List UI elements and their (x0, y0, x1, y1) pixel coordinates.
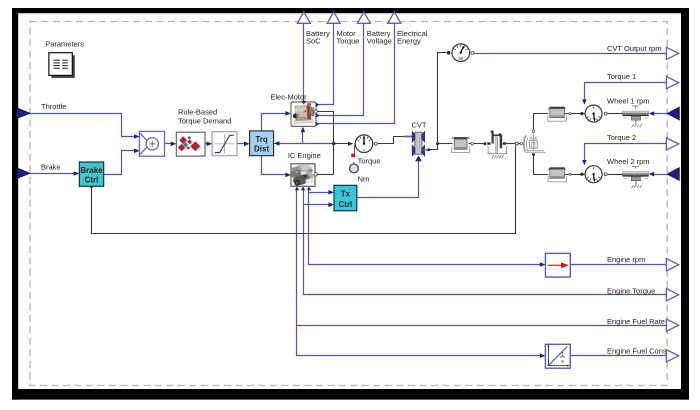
wire rate transition to Engine rpm port (571, 264, 667, 266)
svg-text:Energy: Energy (397, 36, 421, 45)
output port Electrical Energy (388, 12, 401, 23)
connector circle IC Engine shaft (314, 173, 317, 176)
wire wheel 1 tap to Torque 1 port (585, 83, 667, 104)
output port Engine Fuel Cons (666, 350, 678, 362)
svg-text:SoC: SoC (306, 36, 321, 45)
block rate transition (545, 253, 570, 277)
wire engine rpm signal (309, 189, 543, 265)
connector circle torque gauge right (374, 142, 377, 145)
output port Battery Voltage (357, 12, 370, 23)
svg-text:Engine Torque: Engine Torque (607, 287, 655, 296)
axle body bar 2 (623, 166, 649, 188)
connector circle gear right (471, 142, 474, 145)
wire Tx Ctrl output to CVT bottom (357, 159, 419, 198)
wire gauge 1 to axle 1 (607, 113, 623, 115)
wire Wheel 2 rpm port to axle (654, 174, 668, 176)
port mark Elec-Motor right 2 (316, 113, 320, 117)
output port CVT Output rpm (666, 47, 678, 59)
block Rule-Based Torque Demand chart (176, 132, 205, 156)
wire engine torque signal (304, 189, 667, 295)
junction dot tire1 row (580, 112, 583, 115)
tire block 2 (547, 168, 566, 182)
output port Torque 1 (666, 77, 678, 89)
arrowhead into CVT bottom from Tx Ctrl (415, 155, 422, 161)
arrowhead into rate transition (540, 262, 546, 267)
wire torque gauge to CVT input (378, 137, 405, 144)
output port Engine Fuel Rate (666, 319, 678, 331)
junction dot riser/gear row (436, 142, 439, 145)
input port Wheel 1 rpm (667, 107, 679, 120)
arrowhead into Trq Dist left (244, 142, 250, 147)
icon Sum plus sign (149, 141, 155, 147)
wire tire 1 to gauge 1 (565, 113, 585, 115)
svg-text:Dist: Dist (254, 144, 269, 153)
svg-text:Engine rpm: Engine rpm (607, 255, 645, 264)
block gear (inertia) (451, 137, 470, 153)
connector circle differential top (532, 130, 535, 133)
wire Elec-Motor to Battery Voltage port (319, 23, 364, 116)
svg-text:Torque: Torque (337, 36, 360, 45)
arrowhead into axle 1 from port (649, 111, 654, 116)
block Saturation (212, 132, 237, 156)
connector circle gauge2 right (604, 173, 607, 176)
wire engine shaft (318, 174, 334, 176)
port mark Elec-Motor right 1 (316, 103, 320, 107)
junction dot shaft/gauge (332, 142, 335, 145)
wire riser branch to gear (438, 143, 453, 145)
icon integrator (547, 346, 567, 366)
icon electric motor (292, 103, 315, 124)
arrowhead into Chart (171, 142, 177, 147)
border frame top (12, 8, 689, 13)
svg-text:Torque 1: Torque 1 (607, 72, 636, 81)
svg-text:Tx: Tx (341, 189, 351, 198)
svg-text:Torque Demand: Torque Demand (178, 116, 231, 125)
svg-text:IC Engine: IC Engine (288, 151, 321, 160)
block differential (524, 132, 537, 154)
port mark IC Engine bottom 3 (307, 187, 311, 191)
svg-text:Parameters: Parameters (45, 40, 84, 49)
junction dot top gauge left (447, 51, 451, 55)
wire integrator to Engine Fuel Cons port (571, 355, 667, 357)
port mark Elec-Motor right 3 (316, 122, 320, 126)
svg-text:CVT Output rpm: CVT Output rpm (607, 44, 661, 53)
icon rate transition red arrow (548, 264, 562, 266)
block Elec-Motor (291, 102, 316, 126)
port mark IC Engine bottom 2 (301, 187, 305, 191)
connector circle Elec-Motor shaft (314, 110, 317, 113)
wire gear to clutch (469, 143, 486, 145)
arrowhead into IC Engine left (285, 173, 291, 178)
border frame right (681, 8, 689, 400)
output port Motor Torque (327, 12, 340, 23)
wire wheel 2 tap to Torque 2 port (585, 144, 667, 164)
block integrator (545, 344, 570, 368)
svg-text:Ctrl: Ctrl (339, 200, 353, 209)
connector circle tire2 left stub (569, 173, 571, 175)
wire engine fuel rate signal (297, 189, 543, 356)
wire Elec-Motor to Motor Torque port (319, 23, 334, 105)
junction dot tire2 row (580, 173, 583, 176)
port mark Elec-Motor top (302, 101, 306, 105)
svg-text:60: 60 (458, 56, 463, 61)
port mark IC Engine bottom 1 (295, 187, 299, 191)
svg-text:Ctrl: Ctrl (85, 176, 99, 185)
icon chart diamonds (178, 136, 201, 152)
wire Trq Dist bottom to IC Engine input (262, 156, 289, 175)
svg-text:Trq: Trq (255, 135, 268, 144)
wire Elec-Motor to Electrical Energy port (319, 23, 395, 124)
wire clutch to differential (504, 143, 516, 145)
display Nm circle (353, 162, 355, 164)
block CVT icon (404, 132, 431, 157)
wire shaft branch to torque gauge (334, 143, 351, 145)
wire Trq Dist top to Elec-Motor input (262, 114, 289, 131)
block Parameters (49, 53, 72, 76)
block Tx Ctrl (334, 185, 357, 211)
icon Parameters list lines (53, 60, 67, 68)
arrowhead into Saturation (207, 142, 213, 147)
arrowhead into integrator (540, 353, 546, 358)
block Brake Ctrl (79, 162, 103, 186)
wire engine rpm branch to Tx Ctrl input 1 (309, 192, 331, 194)
wire CVT output riser (430, 53, 447, 150)
wire torque gauge badge link (354, 145, 356, 154)
wire Brake Ctrl to Sum (104, 151, 137, 175)
svg-text:Brake: Brake (41, 163, 61, 172)
gauge wheel 1 (585, 105, 602, 122)
output port Torque 2 (666, 138, 678, 150)
arrowhead into Trq Dist right (274, 141, 280, 146)
wire Wheel 1 rpm port to axle (654, 113, 668, 115)
svg-text:Torque: Torque (358, 157, 381, 166)
gauge CVT output rpm (452, 44, 470, 62)
wire Chart to Saturation (205, 143, 211, 145)
icon saturation axes (215, 134, 235, 153)
svg-text:Throttle: Throttle (41, 102, 66, 111)
wire engine fuel rate branch to port (297, 325, 667, 327)
svg-text:Rule-Based: Rule-Based (178, 107, 217, 116)
arrowhead into Tx Ctrl input 1 (328, 190, 334, 195)
svg-text:Wheel 2 rpm: Wheel 2 rpm (607, 157, 650, 166)
arrowhead into Sum input 2 (134, 149, 140, 154)
input port Wheel 2 rpm (667, 168, 679, 181)
gauge torque sensor (355, 135, 373, 153)
svg-text:Torque 2: Torque 2 (607, 133, 636, 142)
svg-text:Engine Fuel Rate: Engine Fuel Rate (607, 317, 665, 326)
junction dot brake ctrl bottom (90, 185, 93, 188)
connector blob differential bottom (532, 153, 535, 156)
wire Saturation to Trq Dist (237, 143, 248, 145)
wire gauge 2 to axle 2 (607, 174, 623, 176)
ground clutch (492, 155, 504, 158)
wire motor shaft (317, 112, 334, 175)
svg-text:Voltage: Voltage (367, 36, 392, 45)
axle body bar 1 (623, 105, 649, 127)
arrowhead into Brake Ctrl (74, 171, 80, 176)
svg-text:CVT: CVT (412, 120, 427, 129)
arrowhead into Elec-Motor left (285, 111, 291, 116)
wire differential top riser to wheel row 1 (534, 114, 549, 131)
svg-text:Elec-Motor: Elec-Motor (270, 93, 307, 102)
arrowhead wheel1 torque tap (582, 99, 587, 104)
connector circle top gauge right (471, 51, 474, 54)
connector circle clutch right junction (515, 142, 518, 145)
border frame bottom (12, 389, 689, 400)
wire feedback branch up to Elec-Motor bottom (302, 129, 304, 144)
output port Engine rpm (666, 259, 678, 271)
input port Brake (17, 168, 30, 178)
block IC Engine (291, 164, 315, 187)
wire brake control line (92, 146, 516, 234)
wire Brake to Brake Ctrl (31, 173, 77, 175)
block clutch (493, 132, 502, 149)
wire Sum to Chart (165, 143, 175, 145)
arrowhead wheel2 torque tap (582, 160, 587, 165)
tire block 1 (547, 107, 566, 121)
wire differential bottom riser to wheel row 2 (534, 155, 549, 175)
svg-text:Wheel 1 rpm: Wheel 1 rpm (607, 97, 650, 106)
arrowhead into Elec-Motor bottom (301, 127, 306, 133)
output port Battery SoC (297, 12, 310, 23)
junction dot clutch left (483, 142, 486, 145)
badge red square torque log (351, 154, 355, 158)
icon saturation curve (215, 135, 234, 152)
wire feedback to Trq Dist right input (277, 143, 334, 145)
connector circle differential left (520, 143, 522, 145)
wire top gauge to CVT Output rpm port (474, 53, 667, 55)
wire Elec-Motor top to Battery SoC port (303, 23, 305, 102)
wire tire 2 to gauge 2 (565, 174, 585, 176)
block Trq Dist (250, 131, 274, 156)
arrowhead into torque gauge (shaft) (348, 142, 353, 146)
svg-text:Engine Fuel Cons: Engine Fuel Cons (607, 347, 667, 356)
arrowhead into axle 2 from port (649, 172, 654, 177)
block Sum (139, 131, 164, 156)
svg-text:Nm: Nm (358, 174, 370, 183)
wire engine torque branch to Tx Ctrl input 2 (304, 204, 331, 206)
border frame left (12, 8, 18, 400)
output port Engine Torque (666, 289, 678, 301)
svg-text:Brake: Brake (80, 166, 103, 175)
input port Throttle (17, 108, 30, 118)
block Parameters shadow (51, 55, 74, 78)
arrowhead into Tx Ctrl input 2 (328, 203, 334, 208)
connector circle gauge1 right (604, 112, 607, 115)
connector circle tire1 left stub (569, 113, 571, 115)
icon engine (291, 165, 315, 186)
wire junction circle to differential (519, 143, 522, 145)
gauge wheel 2 (585, 166, 602, 183)
arrowhead into Sum input 1 (134, 134, 140, 139)
wire Throttle to Sum (31, 114, 137, 137)
